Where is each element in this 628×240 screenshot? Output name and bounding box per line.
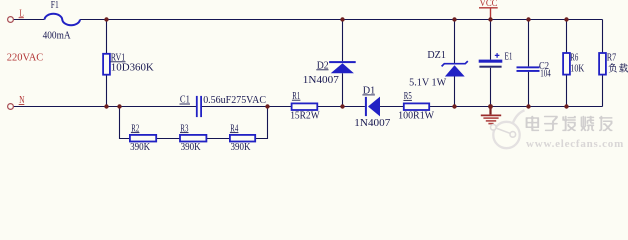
- label R5: [403, 91, 412, 102]
- resistor R5: [404, 103, 429, 110]
- svg-text:400mA: 400mA: [43, 31, 72, 42]
- svg-text:390K: 390K: [130, 142, 151, 153]
- node L terminal: [8, 8, 24, 22]
- junction RV1 bottom: [104, 104, 108, 108]
- svg-text:10K: 10K: [570, 63, 585, 74]
- label D2: [316, 61, 328, 72]
- label R2: [131, 123, 140, 134]
- label R3: [180, 123, 189, 134]
- watermark elecfans logo: [493, 122, 519, 148]
- resistor R7: [599, 53, 606, 75]
- wire top rail: [13, 19, 602, 21]
- zener DZ1: [442, 61, 468, 76]
- wire RV1 stem: [106, 20, 108, 107]
- wire E1 stem: [490, 20, 492, 107]
- svg-text:F1: F1: [51, 0, 59, 11]
- wire R7 stem: [602, 20, 604, 107]
- value 负载 (load): [608, 63, 628, 73]
- label D1: [362, 86, 375, 97]
- svg-text:1N4007: 1N4007: [303, 75, 339, 86]
- junction branch left: [117, 104, 121, 108]
- svg-text:R7: R7: [607, 52, 617, 63]
- svg-text:15R2W: 15R2W: [290, 110, 320, 121]
- junction branch right: [265, 104, 269, 108]
- varistor RV1: [103, 54, 110, 75]
- capacitor C2: [517, 66, 540, 72]
- svg-text:DZ1: DZ1: [427, 50, 446, 61]
- wire R6 stem: [566, 20, 568, 107]
- resistor R2: [130, 135, 156, 142]
- svg-text:100R1W: 100R1W: [398, 110, 435, 121]
- diode D1: [365, 97, 380, 117]
- junction DZ1 top: [452, 17, 456, 21]
- junction C2 bottom: [526, 104, 530, 108]
- ground: [481, 107, 501, 124]
- svg-text:R6: R6: [570, 53, 578, 64]
- svg-text:www.elecfans.com: www.elecfans.com: [526, 138, 624, 150]
- junction R6 top: [564, 17, 568, 21]
- svg-text:390K: 390K: [181, 142, 202, 153]
- resistor R6: [563, 53, 570, 75]
- wire C2 stem: [528, 20, 530, 107]
- svg-text:104: 104: [540, 68, 551, 79]
- resistor R1: [292, 103, 318, 110]
- label RV1: [111, 53, 126, 64]
- resistor R4: [230, 135, 255, 142]
- power VCC: [479, 0, 498, 19]
- svg-text:1N4007: 1N4007: [354, 118, 390, 129]
- wire DZ1 stem: [454, 20, 456, 107]
- wire mid rail: [13, 106, 602, 108]
- fuse F1: [45, 14, 81, 25]
- svg-text:10D360K: 10D360K: [111, 62, 155, 73]
- junction D2 top: [340, 17, 344, 21]
- junction VCC E1 top: [488, 17, 492, 21]
- junction D2 bottom: [340, 104, 344, 108]
- svg-text:5.1V 1W: 5.1V 1W: [409, 78, 447, 89]
- wire R2R3R4 branch: [120, 107, 268, 139]
- junction E1 bottom: [488, 104, 493, 109]
- junction C2 top: [526, 17, 530, 21]
- wire D2 stem: [342, 20, 344, 107]
- svg-text:0.56uF275VAC: 0.56uF275VAC: [203, 95, 266, 106]
- diode D2: [329, 61, 356, 73]
- junction R6 bottom: [564, 104, 568, 108]
- capacitor E1: [479, 53, 503, 68]
- svg-text:390K: 390K: [231, 142, 252, 153]
- junction top RV1: [104, 17, 108, 21]
- junction DZ1 bottom: [452, 104, 456, 108]
- label R1: [292, 91, 301, 102]
- resistor R3: [180, 135, 206, 142]
- label R4: [230, 123, 239, 134]
- node N terminal: [8, 95, 25, 109]
- svg-text:220VAC: 220VAC: [7, 52, 44, 63]
- svg-text:E1: E1: [505, 52, 513, 63]
- capacitor C1: [196, 96, 202, 117]
- label C1: [180, 95, 191, 106]
